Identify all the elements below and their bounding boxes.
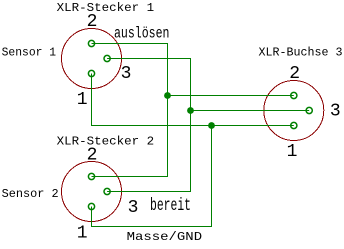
XLR1 pin 3 (104, 55, 110, 61)
svg-text:2: 2 (87, 145, 98, 165)
svg-text:3: 3 (330, 102, 341, 122)
XLR connector shell 1 (XLR-Stecker 1) (62, 29, 122, 89)
node junction dot A (164, 92, 171, 99)
node junction dot B (187, 107, 194, 114)
XLR3 pin 1 (291, 122, 297, 128)
XLR2 pin 2 (88, 173, 94, 179)
XLR3 pin 2 (291, 92, 297, 98)
svg-text:3: 3 (121, 64, 132, 84)
svg-text:2: 2 (289, 64, 300, 84)
svg-text:XLR-Buchse 3: XLR-Buchse 3 (259, 45, 343, 59)
wire GND branch down to bottom bus and up to XLR2 pin1 (92, 126, 212, 227)
XLR connector shell 2 (XLR-Stecker 2) (62, 162, 122, 222)
svg-text:Masse/GND: Masse/GND (127, 230, 203, 244)
wire branch to XLR3 pin2 (168, 95, 294, 97)
svg-text:1: 1 (77, 224, 88, 244)
svg-text:XLR-Stecker 1: XLR-Stecker 1 (57, 1, 155, 15)
XLR1 pin 2 (88, 40, 94, 46)
svg-text:3: 3 (128, 198, 139, 218)
wire branch to XLR3 pin3 (191, 110, 310, 112)
XLR2 pin 1 (88, 203, 94, 209)
svg-text:2: 2 (87, 12, 98, 32)
XLR2 pin 3 (104, 188, 110, 194)
svg-text:XLR-Stecker 2: XLR-Stecker 2 (57, 135, 155, 149)
XLR1 pin 1 (88, 70, 94, 76)
svg-text:Sensor 2: Sensor 2 (2, 187, 59, 201)
svg-text:1: 1 (77, 90, 88, 110)
svg-text:Sensor 1: Sensor 1 (2, 46, 57, 60)
node junction dot C (208, 122, 215, 129)
svg-text:bereit: bereit (150, 196, 191, 216)
svg-text:auslösen: auslösen (114, 24, 170, 42)
svg-text:1: 1 (287, 142, 298, 162)
XLR3 pin 3 (306, 107, 312, 113)
XLR connector shell 3 (XLR-Buchse 3) (264, 81, 324, 141)
wire net GND: XLR1 pin1 down, right to XLR3 pin1 (92, 74, 294, 126)
wire net ausloesen: XLR1 pin2 right, down, to XLR2 pin2 (92, 44, 168, 177)
wire net bereit: XLR1 pin3 right, down, to XLR2 pin3 (107, 59, 190, 192)
